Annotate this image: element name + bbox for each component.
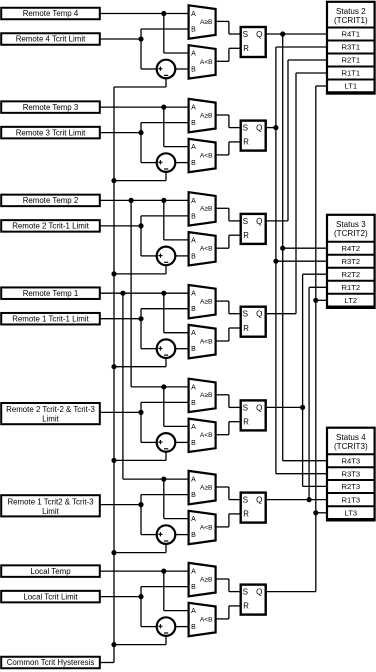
wire: group 2 limit up to comparator B: [140, 123, 142, 133]
node: latch2 bus junction at R3T2: [273, 259, 278, 264]
comparator: Remote 1 Tcrit-2/3 A>=B: [189, 471, 216, 504]
wire: group 1 temp branch down to lower comparator A: [163, 14, 165, 54]
svg-text:S: S: [243, 310, 249, 319]
svg-text:Q: Q: [256, 496, 262, 505]
svg-text:Q: Q: [256, 588, 262, 597]
svg-text:Q: Q: [256, 403, 262, 412]
svg-text:A: A: [191, 11, 196, 18]
wire: group 4 temp line to comparator A: [100, 292, 189, 294]
svg-text:B: B: [191, 120, 196, 127]
node: group 3 temp branch junction: [161, 198, 166, 203]
node: latch2 Q bus junction: [273, 125, 278, 130]
status block separator line 3.0: [327, 241, 375, 243]
wire: group 1 hysteresis branch to subtractor minus input: [165, 78, 167, 87]
comparator: Remote 3 A<B: [189, 139, 216, 172]
comparator: Remote 1 Tcrit-2/3 A<B: [189, 511, 216, 544]
wire: latch7 bus to LT2: [316, 299, 329, 301]
wire: latch7 bus to LT1: [316, 85, 329, 87]
wire: group 6 upper comparator output to latch S: [216, 486, 229, 488]
wire: group 5 subtractor output to lower comparator B: [175, 441, 188, 443]
status block separator line 4.0: [327, 453, 375, 455]
svg-text:B: B: [191, 532, 196, 539]
comparator: Remote 2 Tcrit-2/3 A<B: [189, 419, 216, 452]
svg-text:A<B: A<B: [200, 432, 213, 439]
svg-text:A<B: A<B: [200, 339, 213, 346]
svg-text:Status 2: Status 2: [336, 7, 366, 16]
wire: group 5 lower comparator output to latch R: [216, 434, 229, 436]
SR latch: Remote 3 TCRIT1: [241, 121, 266, 151]
wire: group 7 temp branch down to lower comparator A: [163, 571, 165, 611]
wire: group 5 upper comparator output to latch S: [216, 394, 229, 396]
svg-text:Local Temp: Local Temp: [30, 567, 71, 576]
svg-text:B: B: [191, 346, 196, 353]
wire: group 6 limit up to comparator B: [140, 495, 142, 505]
svg-text:Remote 2 Tcrit-2 & Tcrit-3: Remote 2 Tcrit-2 & Tcrit-3: [6, 405, 95, 414]
status register block Status 4 (TCRIT3): [327, 428, 375, 521]
svg-text:R: R: [243, 510, 249, 519]
svg-text:Common Tcrit Hysteresis: Common Tcrit Hysteresis: [7, 658, 95, 667]
wire: group 3 temp branch down to lower comparator A: [163, 200, 165, 240]
wire: group 3 lower comparator output to latch R: [216, 247, 229, 249]
svg-text:LT1: LT1: [345, 82, 358, 91]
wire: latch3 Q up to R2T1: [266, 220, 288, 222]
wire: group 3 hysteresis branch to subtractor minus input: [165, 265, 167, 274]
svg-text:B: B: [191, 160, 196, 167]
status block separator line 2.4: [327, 79, 375, 81]
wire: group 6 hysteresis branch to subtractor minus input: [165, 544, 167, 553]
wire: group 7 limit down to subtractor +: [140, 597, 142, 627]
comparator: Local A<B: [189, 603, 216, 636]
wire: group 1 limit up to comparator B: [140, 29, 142, 39]
svg-text:Limit: Limit: [42, 415, 59, 424]
wire: latch2 vertical bus R3T1 to R3T3: [275, 47, 277, 474]
node: latch6 Q bus junction: [307, 497, 312, 502]
status register block Status 3 (TCRIT2): [327, 215, 375, 308]
node: latch7 bus junction at LT2: [313, 298, 318, 303]
wire: latch2 Q to bus: [266, 127, 276, 129]
node: group 7 limit junction: [138, 594, 143, 599]
input box: Remote Temp 2: [1, 195, 100, 207]
status block separator line 3.5: [327, 306, 375, 308]
wire: group 3 limit down to subtractor +: [140, 226, 142, 256]
svg-text:R1T3: R1T3: [342, 495, 361, 504]
node: hysteresis bus junction group 2: [111, 178, 116, 183]
wire: group 7 lower comparator output to latch R: [216, 618, 229, 620]
wire: group 6 limit line from box: [100, 504, 141, 506]
wire: group 2 temp branch down to lower comparator A: [163, 107, 165, 147]
wire: group 3 temp line to comparator A: [100, 199, 189, 201]
wire: latch5 bus to R2T2: [303, 273, 329, 275]
svg-text:R2T2: R2T2: [342, 270, 361, 279]
SR latch: Remote 1 TCRIT2/3: [241, 493, 266, 523]
svg-text:Remote Temp 3: Remote Temp 3: [23, 103, 79, 112]
wire: group 2 temp line to comparator A: [100, 106, 189, 108]
svg-text:Limit: Limit: [42, 507, 59, 516]
wire: latch5 bus to R2T3: [303, 485, 329, 487]
status block separator line 4.3: [327, 492, 375, 494]
status block separator line 2.2: [327, 53, 375, 55]
input box: Remote 1 Tcrit-1 Limit: [1, 313, 100, 325]
wire: Remote Temp 1 vertical down to group 6: [122, 293, 124, 479]
input box: Local Tcrit Limit: [1, 591, 100, 603]
input box: Remote 2 Tcrit-1 Limit: [1, 220, 100, 232]
svg-text:Remote Temp 2: Remote Temp 2: [23, 196, 79, 205]
svg-text:S: S: [243, 217, 249, 226]
wire: group 3 upper comparator output to latch S: [216, 207, 229, 209]
node: Remote Temp 2 branch to Tcrit-2/3 comparators: [129, 198, 134, 203]
wire: latch2 bus to R3T3: [276, 473, 329, 475]
svg-text:Remote 1 Tcrit2 & Tcrit-3: Remote 1 Tcrit2 & Tcrit-3: [7, 497, 94, 506]
node: group 5 limit junction: [138, 410, 143, 415]
comparator: Remote 3 A>=B: [189, 99, 216, 132]
wire: group 4 limit up to comparator B: [140, 309, 142, 319]
input box: Remote Temp 4: [1, 8, 100, 20]
wire: group 5 limit down to subtractor +: [140, 412, 142, 442]
input box: Local Temp: [1, 565, 100, 577]
node: group 6 temp branch junction: [161, 477, 166, 482]
svg-text:R2T3: R2T3: [342, 482, 361, 491]
wire: group 3 limit line from box: [100, 225, 141, 227]
svg-text:R4T3: R4T3: [342, 456, 361, 465]
svg-text:R1T1: R1T1: [342, 69, 361, 78]
svg-text:Status 4: Status 4: [336, 433, 366, 442]
wire: group 3 limit up to comparator B: [140, 216, 142, 226]
input box: Remote Temp 3: [1, 101, 100, 113]
node: group 2 limit junction: [138, 130, 143, 135]
svg-text:R: R: [243, 602, 249, 611]
wire: group 7 temp line to comparator A: [100, 570, 189, 572]
subtractor: Remote 1 Tcrit-2/3 hysteresis summer: [157, 525, 176, 544]
wire: latch6 bus to R1T2: [309, 286, 329, 288]
svg-text:Status 3: Status 3: [336, 220, 366, 229]
wire: latch1 Q vertical bus down to R4T3: [282, 34, 284, 461]
svg-text:R3T3: R3T3: [342, 469, 361, 478]
wire: group 5 limit up to comparator B: [140, 402, 142, 412]
node: group 1 limit junction: [138, 36, 143, 41]
wire: latch1 bus to R4T3: [283, 460, 329, 462]
svg-text:Remote 2 Tcrit-1 Limit: Remote 2 Tcrit-1 Limit: [12, 222, 89, 231]
svg-text:Q: Q: [256, 217, 262, 226]
node: group 4 limit junction: [138, 316, 143, 321]
wire: group 6 lower comparator output to latch R: [216, 526, 229, 528]
status block separator line 2.5: [327, 91, 375, 93]
wire: Remote Temp 2 vertical down to group 5: [130, 200, 132, 387]
svg-text:A<B: A<B: [200, 616, 213, 623]
subtractor: Remote 2 Tcrit-2/3 hysteresis summer: [157, 433, 176, 452]
node: group 7 temp branch junction: [161, 569, 166, 574]
svg-text:S: S: [243, 496, 249, 505]
svg-text:A<B: A<B: [200, 246, 213, 253]
svg-text:B: B: [191, 27, 196, 34]
SR latch: Remote 4 TCRIT1: [241, 27, 266, 57]
wire: Common Tcrit Hysteresis line from box: [100, 662, 114, 664]
svg-text:A: A: [191, 51, 196, 58]
wire: group 6 subtractor output to lower comparator B: [175, 534, 188, 536]
wire: latch1 Q to R4T1: [266, 33, 329, 35]
wire: latch6 Q straight to R1T3: [266, 499, 329, 501]
node: group 5 temp branch junction: [161, 384, 166, 389]
svg-text:B: B: [191, 306, 196, 313]
svg-text:B: B: [191, 492, 196, 499]
svg-text:R3T1: R3T1: [342, 43, 361, 52]
svg-text:A: A: [191, 384, 196, 391]
svg-text:A<B: A<B: [200, 59, 213, 66]
status block separator line 3.4: [327, 293, 375, 295]
input box: Remote 1 Tcrit2 & Tcrit-3 Limit: [1, 495, 100, 516]
svg-text:LT3: LT3: [345, 509, 358, 518]
wire: group 7 hysteresis branch to subtractor minus input: [165, 636, 167, 645]
node: hysteresis bus junction group 3: [111, 271, 116, 276]
SR latch: Remote 2 TCRIT2/3: [241, 400, 266, 430]
svg-text:R2T1: R2T1: [342, 56, 361, 65]
wire: group 7 subtractor output to lower comparator B: [175, 626, 188, 628]
node: hysteresis bus junction group 5: [111, 458, 116, 463]
wire: latch5 vertical bus R2T2 to R2T3: [302, 274, 304, 486]
wire: group 4 lower comparator output to latch R: [216, 340, 229, 342]
subtractor: Local hysteresis summer: [157, 617, 176, 636]
node: group 6 limit junction: [138, 502, 143, 507]
subtractor: Remote 2 Tcrit-1 hysteresis summer: [157, 247, 176, 266]
wire: latch2 bus to R3T2: [276, 260, 329, 262]
svg-text:B: B: [191, 213, 196, 220]
status block separator line 3.3: [327, 280, 375, 282]
svg-text:R: R: [243, 231, 249, 240]
svg-text:Remote Temp 4: Remote Temp 4: [23, 9, 79, 18]
comparator: Remote 1 Tcrit-1 A<B: [189, 325, 216, 358]
comparator: Remote 1 Tcrit-1 A>=B: [189, 285, 216, 318]
wire: group 2 limit down to subtractor +: [140, 133, 142, 163]
svg-text:B: B: [191, 624, 196, 631]
svg-text:A<B: A<B: [200, 524, 213, 531]
svg-text:B: B: [191, 440, 196, 447]
svg-text:A: A: [191, 569, 196, 576]
svg-text:A: A: [191, 477, 196, 484]
svg-text:S: S: [243, 403, 249, 412]
wire: group 4 limit line from box: [100, 318, 141, 320]
status block separator line 2.1: [327, 40, 375, 42]
svg-text:A≥B: A≥B: [200, 112, 213, 119]
input box: Remote 3 Tcrit Limit: [1, 127, 100, 139]
wire: latch7 vertical bus up to LT1: [315, 86, 317, 592]
svg-text:A: A: [191, 608, 196, 615]
svg-text:A: A: [191, 105, 196, 112]
wire: latch6 vertical bus up to R1T2: [308, 287, 310, 499]
comparator: Remote 2 Tcrit-1 A<B: [189, 232, 216, 265]
svg-text:R: R: [243, 324, 249, 333]
node: group 3 limit junction: [138, 223, 143, 228]
svg-text:(TCRIT1): (TCRIT1): [334, 16, 368, 25]
wire: group 5 temp branch down to lower comparator A: [163, 387, 165, 427]
subtractor: Remote 4 hysteresis summer: [157, 60, 176, 79]
status block separator line 3.1: [327, 254, 375, 256]
svg-text:A: A: [191, 291, 196, 298]
svg-text:A: A: [191, 424, 196, 431]
wire: latch7 Q to local bus: [266, 591, 316, 593]
comparator: Remote 2 Tcrit-2/3 A>=B: [189, 379, 216, 412]
svg-text:Remote Temp 1: Remote Temp 1: [23, 289, 79, 298]
wire: latch5 Q to bus: [266, 406, 303, 408]
svg-text:A: A: [191, 516, 196, 523]
wire: hysteresis vertical bus: [113, 87, 115, 663]
wire: group 4 limit down to subtractor +: [140, 319, 142, 349]
node: group 4 temp branch junction: [161, 291, 166, 296]
wire: group 2 limit line from box: [100, 132, 141, 134]
svg-text:(TCRIT3): (TCRIT3): [334, 442, 368, 451]
input box: Remote 4 Tcrit Limit: [1, 33, 100, 45]
status block separator line 4.1: [327, 466, 375, 468]
status block separator line 4.4: [327, 505, 375, 507]
wire: group 1 lower comparator output to latch R: [216, 60, 229, 62]
node: latch1 Q bus junction: [280, 31, 285, 36]
wire: group 5 limit line from box: [100, 411, 141, 413]
comparator: Remote 4 A>=B: [189, 5, 216, 38]
svg-text:R: R: [243, 44, 249, 53]
svg-text:B: B: [191, 400, 196, 407]
svg-text:A<B: A<B: [200, 152, 213, 159]
input box: Remote Temp 1: [1, 287, 100, 299]
node: Remote Temp 1 branch to Tcrit-2/3 comparators: [120, 291, 125, 296]
svg-text:R4T2: R4T2: [342, 244, 361, 253]
status block separator line 2.0: [327, 27, 375, 29]
wire: group 1 temp line to comparator A: [100, 13, 189, 15]
svg-text:R: R: [243, 138, 249, 147]
wire: group 1 subtractor output to lower comparator B: [175, 68, 188, 70]
wire: group 6 limit down to subtractor +: [140, 505, 142, 535]
svg-text:A≥B: A≥B: [200, 576, 213, 583]
svg-text:(TCRIT2): (TCRIT2): [334, 229, 368, 238]
svg-text:A≥B: A≥B: [200, 392, 213, 399]
SR latch: Local TCRIT: [241, 585, 266, 615]
wire: group 2 upper comparator output to latch S: [216, 114, 229, 116]
svg-text:Q: Q: [256, 30, 262, 39]
svg-text:A≥B: A≥B: [200, 484, 213, 491]
svg-text:Local Tcrit Limit: Local Tcrit Limit: [23, 592, 78, 601]
wire: group 1 upper comparator output to latch S: [216, 20, 229, 22]
svg-text:A≥B: A≥B: [200, 206, 213, 213]
node: group 1 temp branch junction: [161, 11, 166, 16]
wire: group 4 temp branch down to lower comparator A: [163, 293, 165, 333]
svg-text:A≥B: A≥B: [200, 19, 213, 26]
wire: group 2 lower comparator output to latch R: [216, 154, 229, 156]
status register block Status 2 (TCRIT1): [327, 2, 375, 94]
wire: group 2 hysteresis branch to subtractor minus input: [165, 172, 167, 181]
input box: Common Tcrit Hysteresis: [1, 657, 100, 669]
node: latch1 bus junction at R4T2: [280, 246, 285, 251]
wire: group 5 hysteresis branch to subtractor minus input: [165, 452, 167, 461]
svg-text:A: A: [191, 144, 196, 151]
wire: latch7 bus to LT3: [316, 512, 329, 514]
svg-text:S: S: [243, 588, 249, 597]
wire: group 7 upper comparator output to latch S: [216, 578, 229, 580]
wire: group 7 limit line from box: [100, 596, 141, 598]
svg-text:Q: Q: [256, 124, 262, 133]
svg-text:Remote 4 Tcrit Limit: Remote 4 Tcrit Limit: [16, 35, 86, 44]
input box: Remote 2 Tcrit-2 & Tcrit-3 Limit: [1, 403, 100, 424]
node: hysteresis bus junction group 6: [111, 550, 116, 555]
wire: latch1 bus to R4T2: [283, 247, 329, 249]
svg-text:S: S: [243, 30, 249, 39]
wire: group 3 subtractor output to lower comparator B: [175, 255, 188, 257]
SR latch: Remote 1 TCRIT1: [241, 307, 266, 337]
svg-text:A: A: [191, 330, 196, 337]
wire: group 1 limit line from box: [100, 38, 141, 40]
status block separator line 3.2: [327, 267, 375, 269]
subtractor: Remote 1 Tcrit-1 hysteresis summer: [157, 339, 176, 358]
svg-text:R3T2: R3T2: [342, 257, 361, 266]
node: latch5 Q bus junction: [300, 405, 305, 410]
svg-text:B: B: [191, 584, 196, 591]
svg-text:B: B: [191, 67, 196, 74]
status block separator line 4.2: [327, 479, 375, 481]
svg-text:LT2: LT2: [345, 296, 358, 305]
subtractor: Remote 3 hysteresis summer: [157, 153, 176, 172]
svg-text:Remote 1 Tcrit-1 Limit: Remote 1 Tcrit-1 Limit: [12, 314, 89, 323]
node: hysteresis bus junction group 4: [111, 364, 116, 369]
wire: group 4 upper comparator output to latch S: [216, 300, 229, 302]
wire: group 1 limit down to subtractor +: [140, 39, 142, 69]
wire: group 4 subtractor output to lower comparator B: [175, 348, 188, 350]
svg-text:S: S: [243, 124, 249, 133]
svg-text:R: R: [243, 418, 249, 427]
node: latch7 bus junction at LT3: [313, 510, 318, 515]
wire: group 7 limit up to comparator B: [140, 587, 142, 597]
comparator: Local A>=B: [189, 563, 216, 596]
comparator: Remote 2 Tcrit-1 A>=B: [189, 192, 216, 225]
svg-text:A≥B: A≥B: [200, 299, 213, 306]
wire: latch2 bus to R3T1: [276, 46, 329, 48]
status block separator line 2.3: [327, 66, 375, 68]
wire: group 2 subtractor output to lower comparator B: [175, 162, 188, 164]
wire: latch4 Q up to R1T1: [266, 313, 296, 315]
node: hysteresis bus junction group 7: [111, 642, 116, 647]
svg-text:A: A: [191, 237, 196, 244]
comparator: Remote 4 A<B: [189, 45, 216, 78]
svg-text:B: B: [191, 253, 196, 260]
SR latch: Remote 2 TCRIT1: [241, 214, 266, 244]
node: group 2 temp branch junction: [161, 105, 166, 110]
svg-text:Remote 3 Tcrit Limit: Remote 3 Tcrit Limit: [16, 128, 86, 137]
wire: group 4 hysteresis branch to subtractor minus input: [165, 358, 167, 367]
wire: group 6 temp branch down to lower comparator A: [163, 479, 165, 518]
svg-text:A: A: [191, 198, 196, 205]
svg-text:Q: Q: [256, 310, 262, 319]
svg-text:R4T1: R4T1: [342, 30, 361, 39]
svg-text:R1T2: R1T2: [342, 283, 361, 292]
status block separator line 4.5: [327, 518, 375, 520]
